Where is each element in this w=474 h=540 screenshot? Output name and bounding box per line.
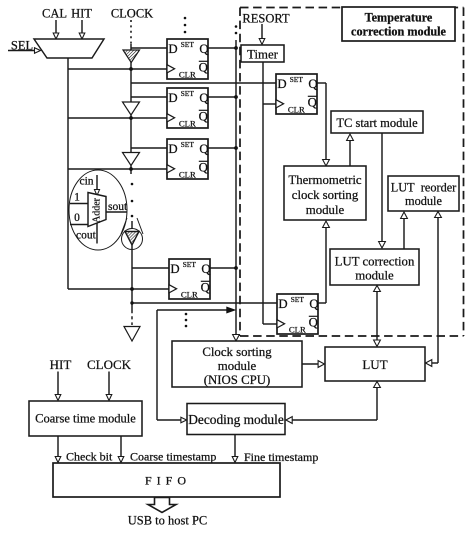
Decoding module box — [187, 404, 285, 435]
adder U1 — [88, 193, 106, 227]
svg-text:module: module — [355, 269, 394, 283]
svg-text:SET: SET — [291, 295, 305, 304]
svg-text:CLR: CLR — [289, 325, 306, 335]
chain end open arrow — [124, 327, 140, 342]
svg-text:HIT: HIT — [50, 357, 72, 372]
svg-text:module: module — [405, 194, 442, 208]
wire SEL arrow into mux — [8, 48, 41, 54]
mux (CAL/HIT selector) — [34, 39, 104, 58]
svg-text:CLR: CLR — [179, 70, 196, 80]
wire mux output vertical — [67, 58, 69, 289]
svg-text:SET: SET — [181, 40, 195, 49]
wire chain below B3 — [130, 166, 132, 175]
wire input 1 line — [70, 203, 88, 205]
svg-text:CLR: CLR — [288, 105, 305, 115]
svg-text:Q: Q — [308, 95, 318, 109]
svg-text:Q: Q — [199, 91, 209, 105]
svg-text:D: D — [170, 262, 179, 276]
wire RESORT arrow into Timer — [259, 24, 265, 45]
wire CAL arrow into mux — [53, 20, 59, 39]
wire D tap long line to FF6 — [132, 302, 277, 304]
svg-text:Thermometric: Thermometric — [288, 173, 362, 187]
svg-text:D: D — [168, 142, 177, 156]
svg-text:CAL: CAL — [42, 7, 67, 21]
svg-text:Q: Q — [201, 262, 211, 276]
buffer B1 (hatched delay cell) — [123, 50, 140, 63]
wire down to decoding module — [156, 310, 158, 420]
svg-text:CLR: CLR — [179, 170, 196, 180]
wire chain segment B1 to B2 — [130, 62, 132, 103]
LUT correction module box — [330, 249, 419, 285]
svg-text:0: 0 — [74, 212, 80, 224]
wire D tap to FF1 — [131, 47, 167, 49]
svg-text:module: module — [306, 203, 345, 217]
wire LUT up into LUT reorder and into LUT right — [426, 212, 442, 367]
flip-flop FF4 — [169, 259, 211, 300]
svg-text:LUT reorder: LUT reorder — [391, 181, 457, 195]
wire coarse timestamp arrow into FIFO — [118, 436, 124, 463]
svg-text:TC start module: TC start module — [336, 116, 418, 130]
svg-text:SET: SET — [290, 75, 304, 84]
svg-text:RESORT: RESORT — [242, 12, 290, 26]
wire cin arrow — [94, 175, 99, 196]
wire circled buffer output down — [131, 245, 133, 310]
wire Thermometric up into TC start module — [347, 134, 354, 166]
svg-text:cout: cout — [76, 230, 97, 242]
wire chain dashed continuation below — [131, 310, 133, 325]
svg-text:(NIOS CPU): (NIOS CPU) — [204, 373, 270, 387]
svg-text:Q: Q — [308, 77, 318, 91]
svg-text:USB to host PC: USB to host PC — [128, 514, 208, 528]
Temperature correction module title box — [342, 7, 455, 41]
wire check bit arrow into FIFO — [55, 436, 61, 463]
svg-text:SET: SET — [181, 89, 195, 98]
flip-flop FF3 — [167, 139, 209, 180]
svg-text:Q: Q — [201, 280, 211, 294]
wire input 0 line — [70, 224, 88, 226]
node continuation dots above Q bus — [235, 25, 238, 34]
wire FF5 Q down into Thermometric module — [317, 83, 329, 166]
Thermometric clock sorting module box — [284, 166, 366, 220]
svg-text:clock sorting: clock sorting — [292, 188, 359, 202]
wire D tap long line to FF5 — [131, 82, 276, 84]
svg-text:LUT correction: LUT correction — [335, 255, 415, 269]
Coarse time module box — [29, 401, 142, 436]
svg-text:CLOCK: CLOCK — [111, 7, 153, 21]
ellipse around adder detail — [69, 170, 127, 250]
wire Decoding module down to FIFO (fine timestamp) — [232, 435, 238, 463]
wire row1 clock line to FF1 clk — [68, 68, 167, 70]
wire Clock sorting to LUT arrow — [302, 361, 324, 368]
svg-text:F I F O: F I F O — [145, 474, 187, 488]
wire FF2 Q to bus — [208, 96, 236, 98]
wire magnifier funnel — [121, 218, 127, 234]
wire LUT correction to LUT (bidirectional) — [374, 286, 381, 347]
Timer box — [241, 45, 284, 62]
wire FF3 Q to bus — [208, 147, 236, 149]
buffer B3 (delay cell) — [123, 153, 140, 166]
USB hollow arrow — [148, 498, 176, 513]
FIFO box — [53, 463, 280, 497]
wire into circled buffer — [131, 221, 133, 232]
wire D tap to FF4 — [132, 267, 169, 269]
TC start module box — [331, 111, 423, 133]
wire row2 clock line to FF2 clk — [68, 117, 167, 119]
wire row4 clock line to FF4 clk — [68, 288, 169, 290]
svg-text:Check bit: Check bit — [66, 450, 113, 464]
svg-text:CLR: CLR — [181, 290, 198, 300]
wire HIT arrow into Coarse time module — [55, 372, 61, 401]
circled buffer detail — [122, 229, 143, 250]
wire Q bus vertical — [235, 40, 237, 335]
svg-text:SET: SET — [181, 140, 195, 149]
wire Timer output down to FF6 clk — [262, 62, 264, 324]
svg-text:LUT: LUT — [362, 357, 387, 372]
svg-text:D: D — [168, 91, 177, 105]
svg-text:module: module — [218, 359, 257, 373]
svg-text:Coarse timestamp: Coarse timestamp — [130, 450, 216, 464]
svg-text:cin: cin — [80, 176, 94, 188]
node continuation dots below FF4 — [185, 313, 188, 328]
wire row3 clock line to FF3 clk — [68, 168, 167, 170]
svg-text:D: D — [168, 42, 177, 56]
svg-text:1: 1 — [74, 192, 80, 204]
wire dotted CLOCK feed — [130, 20, 132, 45]
wire TC start module down into LUT correction module — [379, 133, 386, 248]
svg-text:correction module: correction module — [351, 25, 446, 39]
wire HIT arrow into mux — [79, 20, 85, 39]
svg-text:D: D — [277, 77, 286, 91]
node continuation dots above FF1 — [184, 17, 187, 34]
junction dots on bus — [234, 46, 238, 270]
node chain continuation dots — [131, 183, 134, 218]
svg-text:sout: sout — [108, 201, 128, 213]
svg-text:Q: Q — [199, 109, 209, 123]
junction dots on chain — [129, 67, 134, 305]
svg-text:Decoding module: Decoding module — [188, 412, 284, 427]
svg-text:SET: SET — [183, 260, 197, 269]
svg-text:D: D — [278, 297, 287, 311]
wire D tap to FF2 — [131, 96, 167, 98]
svg-text:Timer: Timer — [247, 48, 279, 62]
flip-flop FF6 (temperature region, bottom) — [277, 294, 319, 335]
flip-flop FF2 — [167, 88, 209, 129]
flip-flop FF1 — [167, 39, 209, 80]
wire LUT to Decoding module (bidirectional) — [286, 382, 381, 424]
dashed border: temperature correction module region — [240, 8, 464, 337]
buffer B4 (hatched, circled) — [125, 232, 139, 246]
wire FF1 Q to bus — [208, 47, 236, 49]
buffer B2 (delay cell) — [123, 102, 140, 115]
svg-text:CLR: CLR — [179, 119, 196, 129]
wire D tap to FF3 — [131, 147, 167, 149]
svg-text:Q: Q — [199, 60, 209, 74]
wire cout line — [96, 223, 98, 244]
LUT reorder module box — [388, 176, 459, 211]
svg-text:Q: Q — [199, 142, 209, 156]
wire sout line — [106, 211, 127, 213]
svg-text:CLOCK: CLOCK — [87, 357, 132, 372]
flip-flop FF5 (temperature region) — [276, 74, 318, 115]
svg-text:Q: Q — [199, 42, 209, 56]
svg-text:Fine timestamp: Fine timestamp — [244, 450, 318, 464]
LUT box — [325, 347, 425, 381]
wire FF6 Q up into Thermometric module — [318, 221, 329, 303]
svg-text:Temperature: Temperature — [365, 11, 433, 25]
svg-text:Coarse time module: Coarse time module — [35, 412, 136, 426]
wire chain segment B2 to B3 — [130, 115, 132, 153]
Clock sorting module (NIOS CPU) box — [172, 341, 302, 387]
svg-text:Q: Q — [309, 297, 319, 311]
svg-text:Q: Q — [309, 315, 319, 329]
svg-text:Q: Q — [199, 160, 209, 174]
svg-text:Adder: Adder — [92, 197, 103, 223]
wire Timer tap to FF5 clk — [263, 103, 276, 105]
wire CLOCK arrow into Coarse time module — [106, 372, 112, 401]
svg-text:Clock sorting: Clock sorting — [202, 345, 272, 359]
svg-text:HIT: HIT — [71, 7, 92, 21]
wire FF4 Q to bus — [210, 267, 236, 269]
wire LUT correction up into LUT reorder — [401, 212, 408, 249]
wire fine-time tap with filled arrow into bus — [157, 309, 227, 311]
